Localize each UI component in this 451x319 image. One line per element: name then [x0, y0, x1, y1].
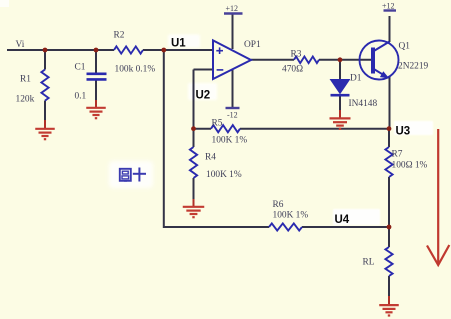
svg-text:470Ω: 470Ω — [282, 65, 303, 75]
ground D1 — [330, 118, 351, 128]
node U3 highlight — [394, 121, 433, 135]
wire U1 feedback left vertical — [164, 50, 269, 227]
resistor R5 — [211, 125, 240, 132]
wire op-amp output to R3 — [251, 59, 294, 61]
wire R7 to U4 row — [388, 177, 390, 227]
svg-text:OP1: OP1 — [244, 40, 261, 50]
svg-text:C1: C1 — [75, 63, 86, 73]
wire op-amp +12 supply — [232, 14, 234, 49]
junction node (389,227) — [387, 225, 392, 230]
wire Q1 emitter to U3 — [389, 77, 391, 129]
power -12 op-amp — [226, 108, 240, 120]
svg-text:R2: R2 — [114, 31, 125, 41]
ground RL — [379, 305, 399, 315]
svg-text:U1: U1 — [171, 37, 186, 49]
svg-text:120k: 120k — [16, 95, 35, 105]
wire D1 anode stub — [339, 60, 341, 80]
resistor R3 — [294, 57, 319, 64]
wire op-amp -12 supply — [232, 70, 234, 108]
resistor R2 — [114, 46, 143, 53]
junction node (45,50) — [43, 48, 48, 53]
wire R4 bottom to ground — [193, 178, 195, 200]
junction node (193.5,128.7) — [191, 126, 196, 131]
figure caption highlight — [109, 161, 153, 188]
capacitor C1 — [87, 74, 107, 80]
wire R1 top stub — [44, 50, 46, 70]
resistor R4 — [190, 147, 197, 178]
wire Vi input to R2 — [7, 49, 114, 51]
svg-text:100K 1%: 100K 1% — [212, 136, 248, 146]
figure caption 圖十 — [120, 168, 146, 182]
svg-text:IN4148: IN4148 — [349, 99, 378, 109]
transistor Q1 — [360, 41, 399, 80]
wire U4 node to RL — [388, 227, 390, 247]
svg-text:D1: D1 — [350, 74, 362, 84]
wire R2 to op-amp + input — [143, 49, 213, 51]
svg-text:100Ω 1%: 100Ω 1% — [392, 161, 428, 171]
svg-text:U4: U4 — [335, 214, 350, 226]
svg-text:100K 1%: 100K 1% — [273, 211, 309, 221]
resistor RL — [385, 247, 392, 276]
wire R3 to Q1 base — [319, 59, 372, 61]
wire R6 to U4 node — [302, 226, 389, 228]
wire D1 cathode to ground — [339, 96, 341, 112]
wire R1 bottom to ground — [44, 101, 46, 121]
svg-text:+12: +12 — [382, 2, 395, 11]
svg-text:U3: U3 — [396, 125, 411, 137]
wire RL to ground — [388, 276, 390, 297]
wire R5 to U3 — [240, 128, 389, 130]
wire op-amp minus input — [194, 69, 214, 71]
svg-text:R6: R6 — [273, 200, 284, 210]
wire U2 node to R5 — [194, 128, 212, 130]
power +12 Q1 — [382, 2, 396, 11]
wire C1 top stub — [95, 50, 97, 73]
output current arrow — [427, 129, 449, 265]
node U2 highlight — [188, 83, 217, 100]
junction node (340,59.8) — [338, 57, 343, 62]
resistor R6 — [269, 223, 302, 230]
node U1 highlight — [168, 35, 200, 48]
svg-text:R7: R7 — [392, 150, 403, 160]
svg-text:100K 1%: 100K 1% — [206, 170, 242, 180]
resistor R1 — [41, 70, 48, 101]
diode D1 — [331, 80, 350, 96]
svg-text:2N2219: 2N2219 — [398, 62, 429, 72]
svg-text:R1: R1 — [20, 75, 31, 85]
junction node (96,50) — [94, 48, 99, 53]
junction node (389,128.7) — [387, 126, 392, 131]
wire R4 top stub — [193, 129, 195, 147]
node U4 highlight — [333, 209, 380, 225]
svg-text:R5: R5 — [212, 119, 223, 129]
op-amp OP1 — [213, 40, 251, 79]
svg-text:0.1: 0.1 — [75, 92, 87, 102]
svg-text:Q1: Q1 — [399, 42, 411, 52]
power +12 op-amp — [224, 4, 243, 14]
junction node (163.8,50) — [161, 48, 166, 53]
wire U2 vertical — [193, 70, 195, 129]
svg-text:-12: -12 — [227, 111, 238, 120]
svg-text:R4: R4 — [205, 153, 216, 163]
svg-text:RL: RL — [363, 258, 375, 268]
wire C1 bottom to ground — [95, 81, 97, 102]
svg-text:U2: U2 — [196, 89, 211, 101]
wire Q1 collector to +12 — [389, 16, 391, 42]
ground R4 — [183, 207, 205, 217]
svg-text:100k 0.1%: 100k 0.1% — [115, 65, 156, 75]
ground R1 — [35, 129, 55, 139]
svg-text:R3: R3 — [291, 50, 302, 60]
svg-text:Vi: Vi — [16, 40, 25, 50]
wire U3 to R7 — [388, 129, 390, 147]
resistor R7 — [385, 147, 392, 177]
svg-text:+12: +12 — [226, 4, 239, 13]
ground C1 — [86, 108, 106, 118]
